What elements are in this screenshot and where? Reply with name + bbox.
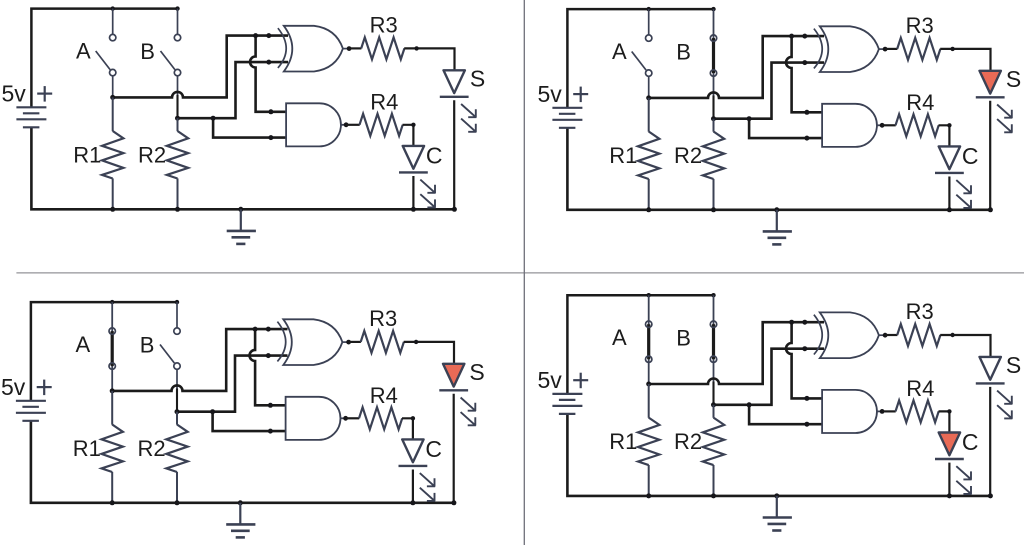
wire node B to XOR bottom input (top-left) (178, 62, 289, 118)
ground bar 1 (top-left) (227, 230, 256, 233)
battery 5v plate 1 long (top-left) (16, 106, 46, 108)
switch SW-B open: top stub (bottom-left) (176, 302, 178, 328)
and-gate U2 output stub (bottom-left) (341, 417, 346, 419)
LED C triangle (top-right) (939, 146, 960, 169)
junction dot after R4 (top-right) (947, 123, 951, 127)
rail dot R2 (top-right) (711, 207, 716, 212)
resistor R3 zigzag (bottom-right) (897, 324, 940, 346)
junction dot B branch (top-right) (747, 116, 752, 121)
quadrant divider horizontal (16, 272, 1024, 274)
switch SW-A terminal circle bottom (bottom-right) (646, 356, 652, 362)
wire switch B lower segment to node (bottom-right) (712, 382, 714, 405)
LED C triangle (bottom-left) (402, 439, 423, 462)
output dot AND (bottom-right) (880, 409, 885, 414)
switch SW-A closed: wire (bottom-right) (648, 295, 650, 384)
wire LED C cathode to ground rail (bottom-left) (412, 470, 414, 503)
wire battery negative lead and bottom ground rail (bottom-left) (31, 421, 454, 503)
resistor R3 zigzag (bottom-left) (361, 331, 404, 353)
wire LED S cathode to ground rail (top-left) (453, 100, 455, 209)
battery plus sign (top-right) (573, 93, 588, 95)
ground bar 2 (top-left) (232, 236, 251, 239)
LED S light arrow 1 (top-left) (461, 104, 476, 118)
battery 5v plate 3 long (top-left) (16, 118, 46, 120)
xor-gate U1 body (top-left) (284, 26, 343, 72)
rail dot R2 (bottom-left) (175, 500, 180, 505)
pin dot AND input 1 (bottom-left) (268, 403, 273, 408)
svg-text:S: S (470, 65, 485, 91)
svg-text:5v: 5v (1, 374, 26, 400)
node dot A (top-left) (110, 95, 115, 100)
pin dot AND input 2 (bottom-left) (268, 429, 273, 434)
svg-text:C: C (425, 436, 442, 462)
switch SW-B bottom stub (top-left) (177, 76, 179, 96)
pin dot AND input 2 (top-left) (268, 135, 273, 140)
node dot A (top-right) (646, 95, 651, 100)
svg-text:A: A (612, 325, 627, 350)
svg-text:S: S (469, 359, 484, 385)
junction dot after R3 (top-right) (950, 47, 954, 51)
wire A branch to AND top input with hop over XOR wire (bottom-left) (250, 329, 288, 405)
wire switch B lower segment to node (top-right) (712, 96, 714, 119)
switch SW-B closed: contact bar (top-right) (712, 38, 715, 73)
xor-gate U1 input arc (bottom-right) (814, 315, 822, 355)
resistor R1 top stub (top-left) (112, 97, 114, 131)
svg-text:S: S (1006, 66, 1021, 92)
resistor R2 top stub (top-left) (177, 118, 179, 131)
svg-text:R1: R1 (609, 429, 637, 454)
pin dot XOR input 2 (top-right) (802, 60, 807, 65)
resistor R1 bottom stub (top-left) (112, 178, 114, 209)
svg-text:R2: R2 (674, 429, 702, 454)
wire node A to XOR top input with hop over B wire (bottom-left) (112, 329, 287, 391)
svg-text:R4: R4 (370, 90, 398, 115)
battery 5v plate 3 long (top-right) (552, 119, 582, 121)
switch SW-A terminal circle top (top-left) (110, 34, 116, 40)
svg-text:R4: R4 (370, 383, 398, 408)
LED S triangle (top-right) (980, 71, 1001, 94)
pin dot AND input 2 (top-right) (804, 136, 809, 141)
svg-text:B: B (676, 326, 691, 351)
ground bar 3 (bottom-left) (236, 536, 245, 539)
wire R4 to LED C (bottom-left) (402, 418, 413, 439)
switch SW-B terminal circle bottom (top-left) (174, 69, 180, 75)
ground bar 1 (bottom-right) (763, 516, 792, 519)
switch SW-B open lever (bottom-left) (160, 345, 174, 364)
resistor R2 top stub (top-right) (713, 119, 715, 132)
rail dot LED C (top-left) (411, 207, 416, 212)
resistor R4 zigzag (bottom-right) (896, 400, 939, 422)
switch SW-A terminal circle bottom (top-left) (110, 69, 116, 75)
and-gate U2 output stub (top-left) (341, 124, 346, 126)
LED S light arrow 1 (top-right) (997, 105, 1012, 119)
node dot top rail at switch A (top-right) (647, 7, 651, 11)
battery 5v plate 3 long (bottom-right) (552, 405, 582, 407)
node dot top rail at switch A (bottom-right) (647, 293, 651, 297)
battery 5v plate 4 short (bottom-left) (22, 420, 39, 422)
rail dot R1 (bottom-right) (646, 493, 651, 498)
wire R3 to LED S (bottom-left) (404, 342, 454, 364)
resistor R2 top stub (bottom-right) (713, 405, 715, 418)
rail dot R1 (bottom-left) (110, 500, 115, 505)
pin dot XOR input 2 (top-left) (266, 60, 271, 65)
pin dot AND input 1 (top-left) (268, 109, 273, 114)
wire node A to XOR top input with hop over B wire (top-left) (113, 36, 288, 98)
node dot top rail at switch A (top-left) (111, 6, 115, 10)
resistor R2 bottom stub (top-left) (177, 178, 179, 209)
junction dot B branch (bottom-right) (747, 402, 752, 407)
switch SW-B terminal circle top (bottom-right) (710, 321, 716, 327)
switch SW-A terminal circle top (bottom-right) (646, 321, 652, 327)
rail dot ground (top-left) (238, 207, 243, 212)
switch SW-B terminal circle top (top-right) (710, 35, 716, 41)
resistor R1 bottom stub (top-right) (648, 179, 650, 210)
junction dot after R3 (top-left) (414, 46, 418, 50)
svg-text:5v: 5v (538, 81, 563, 107)
LED S light arrow 2 (bottom-left) (461, 412, 476, 425)
LED S light arrow 2 (top-left) (461, 119, 476, 133)
LED C light arrow 2 (bottom-right) (956, 481, 971, 495)
node dot A (bottom-right) (646, 382, 651, 387)
battery 5v plate 2 short (bottom-left) (22, 406, 39, 408)
wire top rail and battery positive lead (bottom-right) (567, 295, 713, 394)
battery 5v plate 2 short (top-right) (559, 113, 576, 115)
output dot AND (top-left) (344, 122, 349, 127)
node dot top rail at switch B (top-left) (175, 6, 179, 10)
pin dot XOR input 1 (bottom-right) (802, 320, 807, 325)
svg-text:R2: R2 (674, 143, 702, 168)
output dot AND (bottom-left) (343, 416, 348, 421)
resistor R2 zigzag (top-right) (703, 132, 724, 180)
svg-text:R2: R2 (138, 143, 166, 168)
LED S triangle (bottom-left) (443, 364, 464, 387)
LED C light arrow 1 (top-right) (956, 180, 971, 194)
svg-text:5v: 5v (538, 367, 563, 393)
pin dot AND input 1 (top-right) (804, 110, 809, 115)
wire A branch to AND top input with hop over XOR wire (top-left) (250, 36, 288, 112)
svg-text:B: B (140, 333, 155, 358)
switch SW-A terminal circle top (bottom-left) (109, 328, 115, 334)
switch SW-A closed: wire (bottom-left) (111, 302, 113, 391)
wire LED S cathode to ground rail (bottom-left) (453, 394, 455, 503)
LED S cathode bar (top-left) (440, 96, 469, 98)
LED S light arrow 2 (top-right) (997, 119, 1012, 133)
node dot B (bottom-right) (711, 402, 716, 407)
output dot XOR (bottom-left) (346, 340, 351, 345)
and-gate U2 body (top-right) (822, 104, 877, 147)
ground bar 2 (top-right) (768, 237, 787, 240)
switch SW-B open: top stub (top-left) (177, 9, 179, 35)
switch SW-A terminal circle top (top-right) (646, 35, 652, 41)
wire top rail and battery positive lead (bottom-left) (31, 302, 177, 401)
resistor R4 zigzag (top-left) (360, 114, 403, 136)
LED C light arrow 2 (top-left) (420, 194, 435, 208)
rail dot corner (bottom-right) (988, 493, 993, 498)
resistor R1 zigzag (top-right) (638, 132, 659, 180)
svg-text:A: A (76, 332, 91, 357)
wire LED C cathode to ground rail (top-right) (948, 177, 950, 210)
wire node B to XOR bottom input (bottom-right) (714, 349, 825, 405)
svg-text:R2: R2 (138, 436, 166, 461)
wire LED S cathode to ground rail (top-right) (989, 101, 991, 210)
wire XOR output to R3 (bottom-right) (885, 334, 897, 336)
rail dot R1 (top-right) (646, 207, 651, 212)
switch SW-B terminal circle bottom (bottom-right) (710, 356, 716, 362)
battery 5v plate 1 long (bottom-left) (16, 400, 46, 402)
svg-text:C: C (962, 143, 979, 169)
wire R4 to LED C (top-right) (939, 125, 950, 146)
switch SW-A open: top stub (top-right) (648, 9, 650, 35)
svg-text:S: S (1006, 352, 1021, 378)
xor-gate U1 body (bottom-left) (283, 319, 342, 365)
switch SW-B terminal circle top (top-left) (174, 34, 180, 40)
node dot top rail at switch B (bottom-right) (711, 293, 715, 297)
LED S triangle (top-left) (444, 70, 465, 93)
svg-text:R1: R1 (73, 143, 101, 168)
wire AND output to R4 (bottom-left) (346, 417, 360, 419)
node dot A (bottom-left) (110, 388, 115, 393)
and-gate U2 body (bottom-right) (822, 390, 877, 433)
LED C triangle (top-left) (403, 146, 424, 169)
wire node A to XOR top input with hop over B wire (top-right) (649, 36, 824, 98)
junction dot after R3 (bottom-left) (414, 340, 418, 344)
xor-gate U1 input arc (top-left) (278, 28, 286, 68)
LED C cathode bar (bottom-right) (935, 458, 964, 460)
and-gate U2 output stub (bottom-right) (877, 410, 882, 412)
battery plus sign (bottom-left) (37, 386, 52, 388)
switch SW-A open lever (top-right) (632, 52, 646, 71)
wire top rail and battery positive lead (top-left) (31, 9, 177, 108)
switch SW-B terminal circle bottom (bottom-left) (174, 363, 180, 369)
node dot top rail at switch A (bottom-left) (110, 300, 114, 304)
junction dot after R4 (top-left) (411, 123, 415, 127)
resistor R1 zigzag (bottom-right) (638, 418, 659, 466)
switch SW-B terminal circle top (bottom-left) (174, 328, 180, 334)
ground stub (top-left) (240, 209, 242, 230)
and-gate U2 output stub (top-right) (877, 124, 882, 126)
junction dot after R4 (bottom-left) (411, 416, 415, 420)
rail dot corner (top-left) (452, 207, 457, 212)
battery plus sign (top-left) (37, 92, 52, 94)
LED S cathode bar (top-right) (976, 96, 1005, 98)
wire LED C cathode to ground rail (top-left) (412, 176, 414, 209)
xor-gate U1 input arc (top-right) (814, 29, 822, 69)
pin dot AND input 2 (bottom-right) (804, 422, 809, 427)
svg-text:R1: R1 (609, 143, 637, 168)
wire battery negative lead and bottom ground rail (top-right) (567, 128, 990, 210)
LED C cathode bar (top-left) (399, 171, 428, 173)
wire LED C cathode to ground rail (bottom-right) (948, 463, 950, 496)
LED C cathode bar (top-right) (935, 172, 964, 174)
output dot XOR (top-right) (883, 47, 888, 52)
LED S triangle (bottom-right) (980, 357, 1001, 380)
wire XOR output to R3 (bottom-left) (349, 341, 361, 343)
resistor R4 zigzag (bottom-left) (359, 407, 402, 429)
battery 5v plate 4 short (top-right) (559, 127, 576, 129)
resistor R1 top stub (top-right) (648, 98, 650, 132)
switch SW-B open lever (top-left) (161, 51, 175, 70)
svg-text:C: C (426, 143, 443, 169)
wire switch B lower segment to node (bottom-left) (176, 389, 178, 412)
resistor R2 zigzag (bottom-left) (166, 425, 187, 473)
battery 5v plate 2 short (bottom-right) (559, 399, 576, 401)
resistor R1 bottom stub (bottom-right) (648, 465, 650, 496)
junction dot B branch (top-left) (211, 116, 216, 121)
node dot B (top-left) (175, 116, 180, 121)
switch SW-A closed: contact bar (bottom-right) (647, 324, 650, 359)
resistor R2 bottom stub (top-right) (713, 179, 715, 210)
svg-text:R3: R3 (369, 306, 397, 331)
wire switch B lower segment to node (top-left) (176, 95, 178, 118)
battery 5v plate 1 long (bottom-right) (552, 393, 582, 395)
switch SW-B closed: contact bar (bottom-right) (712, 324, 715, 359)
wire B branch to AND bottom input (top-left) (213, 118, 288, 137)
LED S light arrow 1 (bottom-right) (997, 391, 1012, 404)
pin dot XOR input 1 (top-left) (266, 33, 271, 38)
switch SW-B closed: wire (top-right) (713, 9, 715, 96)
resistor R2 zigzag (top-left) (167, 131, 188, 179)
switch SW-A open: top stub (top-left) (112, 9, 114, 35)
wire AND output to R4 (top-right) (882, 124, 896, 126)
ground bar 3 (top-right) (772, 243, 781, 246)
svg-text:R4: R4 (906, 376, 934, 401)
LED C light arrow 2 (bottom-left) (420, 488, 435, 501)
battery 5v plate 4 short (bottom-right) (559, 413, 576, 415)
resistor R1 bottom stub (bottom-left) (111, 472, 113, 503)
svg-text:R3: R3 (906, 299, 934, 324)
wire node B to XOR bottom input (top-right) (714, 63, 825, 119)
wire node B to XOR bottom input (bottom-left) (177, 356, 288, 412)
wire R3 to LED S (top-right) (940, 49, 990, 71)
wire B branch to AND bottom input (top-right) (749, 119, 824, 138)
switch SW-A terminal circle bottom (top-right) (646, 70, 652, 76)
resistor R3 zigzag (top-left) (361, 37, 404, 59)
LED S light arrow 1 (bottom-left) (461, 398, 476, 412)
svg-text:R1: R1 (73, 436, 101, 461)
LED C light arrow 1 (bottom-right) (956, 466, 971, 479)
battery plus sign (bottom-right) (573, 379, 588, 381)
svg-text:R3: R3 (370, 12, 398, 37)
rail dot corner (bottom-left) (451, 500, 456, 505)
rail dot LED C (bottom-right) (947, 493, 952, 498)
rail dot R1 (top-left) (110, 207, 115, 212)
LED C triangle (bottom-right) (939, 433, 960, 456)
output dot XOR (top-left) (347, 46, 352, 51)
quadrant divider vertical (523, 0, 525, 545)
node dot top rail at switch B (bottom-left) (175, 300, 179, 304)
switch SW-A bottom stub (top-right) (648, 76, 650, 98)
node dot B (top-right) (711, 116, 716, 121)
rail dot ground (bottom-left) (238, 500, 243, 505)
svg-text:A: A (76, 39, 91, 64)
xor-gate U1 output stub (bottom-left) (342, 341, 348, 343)
ground bar 2 (bottom-right) (768, 523, 787, 526)
resistor R1 zigzag (bottom-left) (102, 425, 123, 473)
ground bar 3 (bottom-right) (772, 529, 781, 532)
junction dot after R3 (bottom-right) (950, 333, 954, 337)
ground stub (bottom-left) (239, 503, 241, 524)
resistor R4 zigzag (top-right) (896, 114, 939, 136)
svg-text:B: B (676, 40, 691, 65)
ground bar 1 (top-right) (763, 230, 792, 233)
svg-text:R3: R3 (906, 13, 934, 38)
wire XOR output to R3 (top-right) (885, 48, 897, 50)
LED C light arrow 1 (top-left) (420, 180, 435, 194)
ground stub (bottom-right) (776, 496, 778, 517)
LED S light arrow 2 (bottom-right) (997, 405, 1012, 418)
node dot top rail at switch B (top-right) (711, 7, 715, 11)
resistor R1 top stub (bottom-right) (648, 384, 650, 418)
xor-gate U1 output stub (top-right) (879, 48, 885, 50)
resistor R3 zigzag (top-right) (897, 38, 940, 60)
rail dot R2 (bottom-right) (711, 493, 716, 498)
xor-gate U1 body (bottom-right) (820, 312, 879, 358)
rail dot LED C (bottom-left) (410, 500, 415, 505)
junction dot B branch (bottom-left) (210, 409, 215, 414)
ground bar 1 (bottom-left) (226, 523, 255, 526)
wire XOR output to R3 (top-left) (349, 47, 361, 49)
junction dot A branch (bottom-left) (253, 327, 258, 332)
ground stub (top-right) (776, 210, 778, 231)
LED S cathode bar (bottom-left) (439, 389, 468, 391)
resistor R1 zigzag (top-left) (102, 131, 123, 179)
svg-text:5v: 5v (2, 81, 27, 107)
wire battery negative lead and bottom ground rail (bottom-right) (567, 414, 990, 496)
switch SW-A open lever (top-left) (96, 51, 110, 70)
wire A branch to AND top input with hop over XOR wire (bottom-right) (786, 322, 824, 398)
xor-gate U1 body (top-right) (820, 26, 879, 72)
switch SW-A bottom stub (top-left) (112, 76, 114, 98)
wire AND output to R4 (top-left) (346, 124, 360, 126)
pin dot AND input 1 (bottom-right) (804, 396, 809, 401)
rail dot R2 (top-left) (175, 207, 180, 212)
svg-text:R4: R4 (906, 90, 934, 115)
wire LED S cathode to ground rail (bottom-right) (989, 387, 991, 496)
switch SW-B terminal circle bottom (top-right) (710, 70, 716, 76)
pin dot XOR input 1 (top-right) (802, 34, 807, 39)
and-gate U2 body (top-left) (286, 103, 341, 146)
switch SW-B bottom stub (bottom-left) (176, 369, 178, 389)
svg-text:C: C (962, 429, 979, 455)
pin dot XOR input 1 (bottom-left) (266, 327, 271, 332)
and-gate U2 body (bottom-left) (286, 397, 341, 440)
battery 5v plate 1 long (top-right) (552, 107, 582, 109)
xor-gate U1 input arc (bottom-left) (277, 322, 285, 362)
resistor R2 zigzag (bottom-right) (703, 418, 724, 466)
switch SW-B closed: wire (bottom-right) (713, 295, 715, 382)
junction dot A branch (bottom-right) (789, 320, 794, 325)
battery 5v plate 4 short (top-left) (23, 126, 40, 128)
resistor R2 bottom stub (bottom-left) (176, 472, 178, 503)
rail dot ground (top-right) (774, 207, 779, 212)
junction dot A branch (top-left) (253, 33, 258, 38)
battery 5v plate 3 long (bottom-left) (16, 412, 46, 414)
wire AND output to R4 (bottom-right) (882, 410, 896, 412)
rail dot ground (bottom-right) (774, 493, 779, 498)
LED S cathode bar (bottom-right) (976, 382, 1005, 384)
resistor R1 top stub (bottom-left) (111, 391, 113, 425)
junction dot after R4 (bottom-right) (947, 409, 951, 413)
resistor R2 bottom stub (bottom-right) (713, 465, 715, 496)
xor-gate U1 output stub (bottom-right) (879, 334, 885, 336)
LED C light arrow 1 (bottom-left) (420, 473, 435, 486)
rail dot corner (top-right) (988, 207, 993, 212)
pin dot XOR input 2 (bottom-right) (802, 346, 807, 351)
switch SW-A terminal circle bottom (bottom-left) (109, 363, 115, 369)
wire battery negative lead and bottom ground rail (top-left) (31, 127, 454, 209)
output dot XOR (bottom-right) (883, 333, 888, 338)
wire B branch to AND bottom input (bottom-left) (213, 412, 288, 431)
wire R4 to LED C (top-left) (403, 125, 414, 146)
